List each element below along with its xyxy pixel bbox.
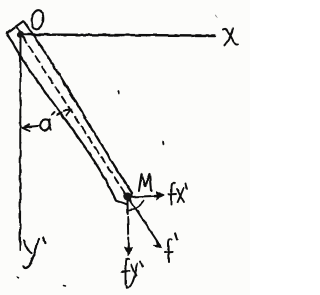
small angle arc between fx' and f' at M xyxy=(129,201,144,211)
origin node O dot xyxy=(17,31,24,38)
rod (inclined bar outline) xyxy=(7,21,132,205)
y-axis label y' xyxy=(24,238,46,268)
origin label O xyxy=(31,9,45,29)
fx' arrow xyxy=(131,192,164,200)
stray speck 2 xyxy=(162,142,165,145)
f' arrow (along rod) xyxy=(130,200,162,248)
x-axis xyxy=(22,35,215,36)
rod dashed centerline xyxy=(16,27,126,196)
fy' arrow xyxy=(125,201,133,255)
angle alpha arc with arrowheads xyxy=(23,110,72,132)
stray speck 1 xyxy=(117,92,120,94)
y-axis xyxy=(19,37,22,250)
M label xyxy=(139,174,151,191)
stray speck 5 xyxy=(215,15,217,17)
stray speck 3 xyxy=(17,276,19,279)
stray speck 4 xyxy=(64,285,66,288)
alpha label xyxy=(40,119,51,130)
fy' label xyxy=(122,258,143,287)
f' label xyxy=(165,234,177,263)
fx' label xyxy=(169,183,187,204)
x-axis label x xyxy=(224,28,238,46)
point M dot xyxy=(124,193,132,201)
